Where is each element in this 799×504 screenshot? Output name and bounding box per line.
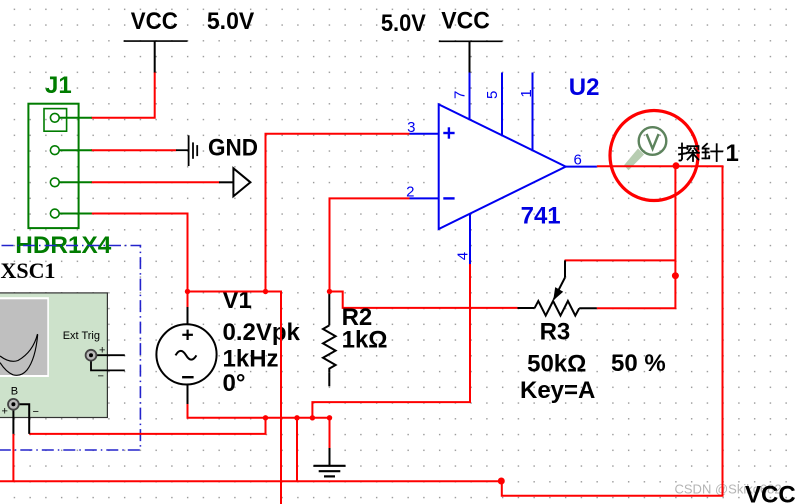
svg-text:R3: R3 [540, 319, 571, 346]
svg-text:Ext Trig: Ext Trig [63, 330, 100, 342]
svg-text:−: − [98, 371, 104, 383]
svg-text:5.0V: 5.0V [207, 8, 254, 35]
svg-text:+: + [99, 345, 105, 357]
svg-text:1: 1 [726, 140, 739, 167]
svg-text:VCC: VCC [441, 8, 490, 35]
svg-text:4: 4 [454, 252, 471, 260]
svg-text:7: 7 [452, 91, 469, 99]
svg-text:VCC: VCC [131, 8, 178, 35]
svg-text:0.2Vpk: 0.2Vpk [223, 319, 301, 346]
svg-text:1kHz: 1kHz [223, 345, 279, 372]
svg-text:2: 2 [406, 183, 414, 200]
svg-text:741: 741 [521, 203, 561, 230]
svg-text:−: − [33, 406, 39, 418]
svg-text:0°: 0° [223, 370, 246, 397]
svg-text:5.0V: 5.0V [381, 10, 426, 37]
svg-text:5: 5 [484, 91, 501, 99]
svg-text:U2: U2 [569, 74, 600, 101]
svg-text:XSC1: XSC1 [1, 258, 56, 283]
svg-text:VCC: VCC [745, 482, 796, 504]
svg-text:J1: J1 [45, 72, 72, 99]
svg-text:50 %: 50 % [611, 350, 666, 377]
svg-text:1kΩ: 1kΩ [342, 326, 388, 353]
svg-text:B: B [11, 386, 18, 398]
svg-text:GND: GND [208, 134, 258, 161]
svg-text:Key=A: Key=A [520, 377, 595, 404]
svg-text:1: 1 [518, 89, 535, 97]
svg-text:6: 6 [574, 151, 582, 168]
svg-text:3: 3 [407, 119, 415, 136]
svg-text:+: + [2, 406, 8, 418]
svg-text:50kΩ: 50kΩ [527, 351, 586, 378]
